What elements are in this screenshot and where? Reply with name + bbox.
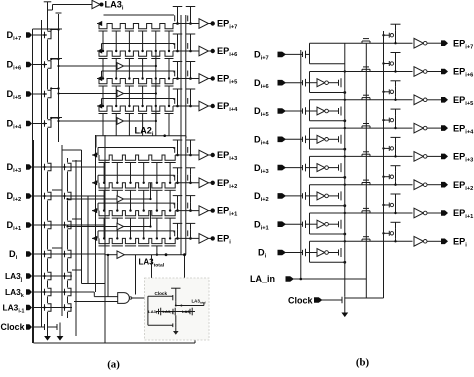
svg-text:Clock: Clock bbox=[288, 296, 314, 306]
svg-text:Clock: Clock bbox=[155, 291, 168, 296]
svg-text:LA_in: LA_in bbox=[250, 274, 275, 284]
svg-text:LA3j: LA3j bbox=[182, 309, 191, 315]
svg-text:Clock: Clock bbox=[1, 322, 25, 332]
svg-text:(b): (b) bbox=[356, 357, 370, 369]
svg-text:(a): (a) bbox=[107, 359, 120, 371]
